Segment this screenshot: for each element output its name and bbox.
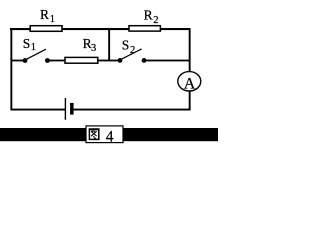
switch S1 contact left	[23, 58, 28, 63]
caption glyph 图 (drawn)	[89, 129, 99, 139]
wire middle vertical (node between R1,R2 down to R3/S2 row)	[108, 28, 110, 61]
svg-text:R: R	[144, 8, 153, 23]
wire S-row: S2 to right vertical	[144, 60, 191, 62]
wire bottom right of battery	[74, 109, 191, 111]
svg-text:A: A	[184, 76, 196, 93]
wire S-row: R3 to middle node	[98, 60, 110, 62]
switch S2 contact right	[142, 58, 147, 63]
wire S-row: left vertical to S1	[11, 60, 26, 62]
wire left vertical	[10, 28, 12, 111]
wire S-row: middle node to S2	[108, 60, 120, 62]
wire bottom left of battery	[11, 109, 66, 111]
switch S2 blade	[120, 49, 141, 60]
ammeter U1 circle	[178, 72, 201, 91]
wire top (left node to right node)	[10, 28, 191, 30]
wire right vertical upper	[189, 28, 191, 72]
svg-text:4: 4	[106, 128, 114, 145]
resistor R2	[129, 26, 160, 31]
wire S-row: S1 to R3	[48, 60, 67, 62]
svg-text:2: 2	[130, 45, 135, 56]
switch S1 contact right	[45, 58, 50, 63]
svg-text:2: 2	[153, 15, 158, 26]
svg-text:3: 3	[91, 43, 96, 54]
svg-text:1: 1	[50, 14, 55, 25]
caption white box	[86, 126, 123, 143]
resistor R1	[30, 26, 62, 32]
svg-text:S: S	[122, 37, 130, 52]
resistor R3	[65, 57, 98, 63]
wire right vertical lower	[189, 90, 191, 110]
svg-text:S: S	[23, 36, 31, 51]
svg-text:R: R	[40, 7, 49, 22]
switch S2 contact left	[118, 58, 123, 63]
switch S1 blade	[25, 49, 46, 60]
caption black bar	[0, 128, 218, 141]
battery short thick plate (-)	[70, 103, 74, 115]
svg-text:1: 1	[31, 42, 36, 53]
battery long plate (+)	[65, 98, 66, 120]
